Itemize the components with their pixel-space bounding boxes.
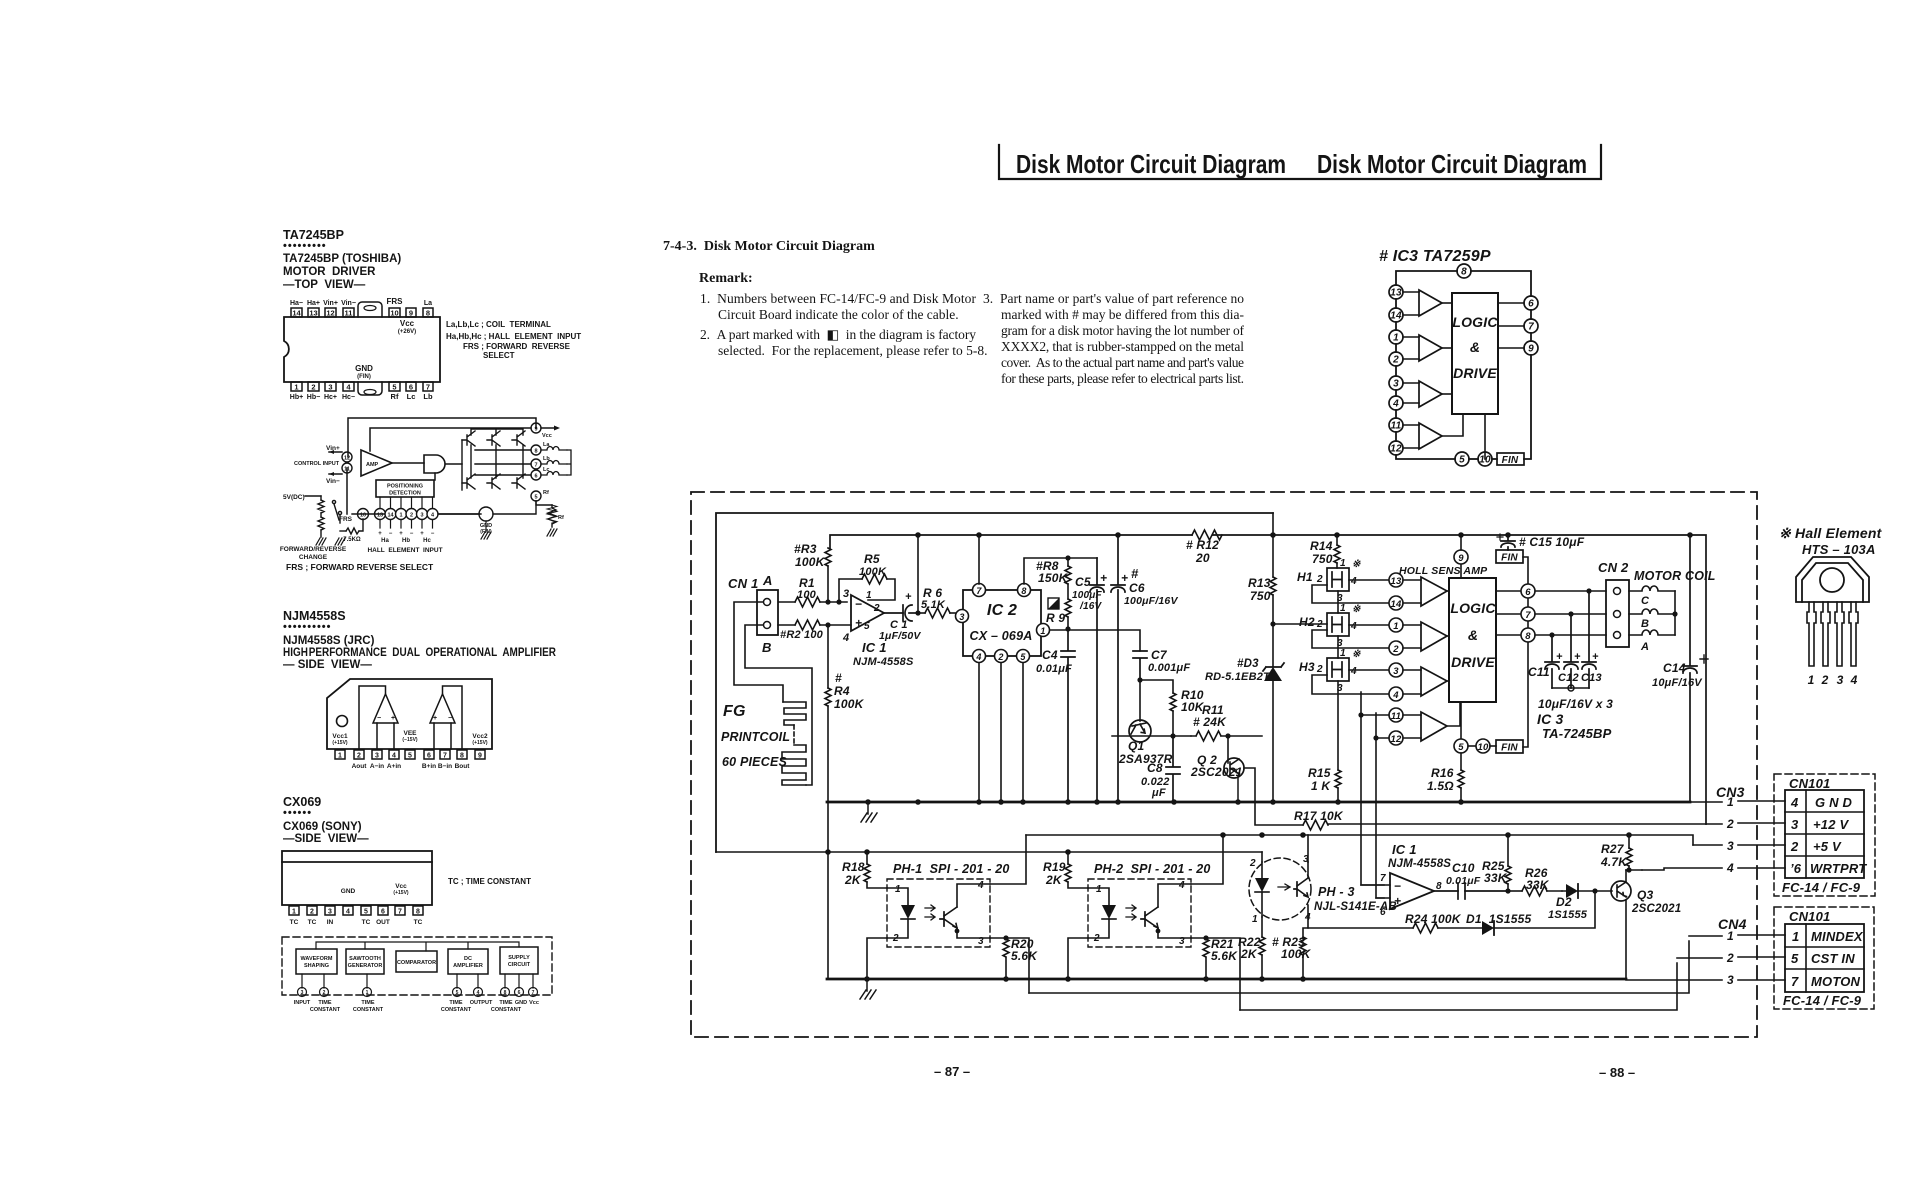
PH-2 phototransistor [1141,884,1191,938]
svg-text:9: 9 [1458,553,1464,564]
svg-text:11: 11 [344,467,350,473]
IC2 pin1 wire [1050,630,1140,651]
svg-text:※: ※ [1352,649,1361,660]
node wire x=1273 down from board edge [1272,513,1274,577]
svg-text:1S1555: 1S1555 [1548,909,1588,921]
svg-text:C7: C7 [1151,648,1168,662]
resistor R9 zigzag [1065,584,1071,632]
svg-text:13: 13 [1390,288,1402,299]
svg-text:100K: 100K [795,555,826,569]
svg-text:+: + [855,616,862,630]
svg-text:IN: IN [327,919,334,926]
svg-text:100: 100 [797,589,817,601]
FRS switch network [283,494,363,537]
svg-text:7: 7 [1525,610,1531,621]
IC1 name label [853,640,914,668]
resistor R10 10K [1140,680,1205,736]
svg-text:La: La [424,300,432,307]
capacitor C5 [1072,558,1107,802]
ground symbols under switch [316,538,345,545]
CX069 block diagram dashed box [282,937,552,995]
svg-text:R27: R27 [1601,842,1625,856]
svg-text:−: − [389,531,393,537]
hall element leg 2 [1821,602,1830,666]
svg-text:33K: 33K [1526,878,1550,892]
svg-text:13: 13 [309,309,317,318]
svg-text:2SC2021: 2SC2021 [1631,903,1681,915]
svg-text:5: 5 [534,495,537,501]
svg-text:COMPARATOR: COMPARATOR [397,960,436,966]
output bridge transistors [462,429,531,490]
capacitor C12 [1558,611,1581,688]
svg-text:Hb: Hb [402,538,410,544]
IC3 pin 13 [1389,573,1403,587]
svg-text:Lc: Lc [407,392,416,401]
svg-text:13: 13 [1391,576,1402,587]
svg-text:GENERATOR: GENERATOR [348,963,383,969]
svg-text:SHAPING: SHAPING [304,963,329,969]
svg-text:(−15V): (−15V) [402,737,417,743]
svg-text:4: 4 [1350,621,1357,632]
IC1b input wires [1361,885,1390,898]
HOLL SENS AMP label [1399,565,1488,577]
svg-text:—SIDE VIEW—: —SIDE VIEW— [283,833,369,845]
svg-text:4: 4 [975,652,981,662]
NJM4558S index hole [337,716,348,727]
bottom pin row circles 10,13,14,1,2,3,4 [339,509,481,524]
svg-text:2: 2 [1726,951,1734,965]
svg-text:IC 1: IC 1 [1392,842,1417,857]
pin 7 right [1524,319,1538,333]
IC2 pin 5 [1017,650,1030,803]
supply circuit box [500,947,538,974]
pin 11 [1389,418,1419,432]
pin 9 right [1524,341,1538,355]
svg-text:POSITIONING: POSITIONING [387,484,423,490]
svg-text:A−in: A−in [370,763,384,770]
Q1 emitter wire to R10/R11 [1112,733,1191,738]
svg-text:12: 12 [326,309,334,318]
svg-text:Bout: Bout [455,763,471,770]
svg-text:1: 1 [1792,929,1799,944]
svg-text:11: 11 [1391,421,1402,432]
pin 13 [1389,285,1419,299]
capacitor C6 [1111,535,1178,802]
wires pos-det to pins [380,497,433,528]
svg-text:5: 5 [456,990,459,996]
svg-text:R13: R13 [1248,576,1271,590]
svg-text:Vcc: Vcc [400,319,415,328]
PH-1 phototransistor [940,884,990,938]
svg-text:Rf: Rf [391,392,399,401]
svg-text:750: 750 [1250,589,1271,603]
IC2 pin 1 [1037,624,1050,637]
svg-text:100K: 100K [859,566,887,578]
svg-text:’6: ’6 [1790,861,1802,876]
svg-text:FRS ; FORWARD REVERSE: FRS ; FORWARD REVERSE [463,342,571,351]
pin 9 circle Vcc [531,423,552,439]
transistor Q1 2SA937R [1118,680,1173,766]
NJM4558S package outline [327,679,492,749]
svg-text:Q1: Q1 [1128,739,1145,753]
PH-3 phototransistor [1294,862,1308,917]
op-amp IC1 [842,588,884,644]
PH-1 pin2 wire down [867,938,887,979]
svg-text:LOGIC: LOGIC [1450,600,1496,616]
R17 wire to CN3-2 [1244,768,1706,830]
motor coil common [1672,591,1677,635]
motor coil A [1629,630,1675,653]
svg-text:Vcc: Vcc [395,883,407,890]
pin 4 [1389,396,1419,410]
svg-text:9: 9 [534,427,537,433]
resistor R19 2K [1043,852,1088,888]
CN4 wire 3 [1626,973,1785,987]
svg-text:150K: 150K [1038,571,1069,585]
svg-text:HOLL SENS AMP: HOLL SENS AMP [1399,565,1488,577]
pin 6 right [1524,296,1538,310]
svg-text:Remark:: Remark: [699,271,753,286]
positioning detection box [376,480,434,497]
svg-text:R5: R5 [864,552,880,566]
svg-text:•••••••••: ••••••••• [283,240,327,252]
svg-text:1: 1 [1393,333,1399,344]
svg-text:(+15V): (+15V) [472,740,487,746]
page number 88 [1599,1065,1635,1080]
svg-text:DC: DC [464,956,472,962]
svg-text:TIME: TIME [449,1000,462,1006]
svg-text:RD-5.1EB2T: RD-5.1EB2T [1205,671,1271,683]
svg-text:TA7245BP (TOSHIBA): TA7245BP (TOSHIBA) [283,253,401,265]
svg-text:10: 10 [1478,742,1489,753]
svg-text:2: 2 [310,909,314,916]
svg-text:33K: 33K [1484,871,1508,885]
svg-text:+: + [1100,571,1107,585]
resistor R6 5.1K [918,586,955,618]
svg-text:GND: GND [341,888,356,895]
CN3 wire 1 [1690,795,1785,809]
svg-text:H2: H2 [1299,615,1315,629]
svg-text:R 9: R 9 [1046,611,1065,625]
svg-text:5: 5 [1458,742,1464,753]
svg-text:D2: D2 [1556,895,1572,909]
svg-text:/16V: /16V [1079,601,1103,612]
hall sensor H3 [1299,648,1361,694]
IC3 pin 6 right [1496,584,1606,598]
hall amp buffer 2 [1421,622,1449,651]
IC1b output wire + C10 [1434,861,1508,899]
svg-text:5: 5 [1020,652,1026,662]
svg-text:11: 11 [345,309,353,318]
pin 12 circle [342,452,352,462]
TA7245BP block diagram wires [329,418,560,514]
svg-text:AMPLIFIER: AMPLIFIER [453,963,483,969]
svg-text:3: 3 [328,383,332,392]
svg-text:2: 2 [1249,858,1256,869]
svg-text:Vin−: Vin− [341,300,356,307]
svg-text:7: 7 [398,909,402,916]
IC2 pin 3 [956,610,969,623]
FIN box bottom [1490,740,1523,754]
svg-text:100K: 100K [1281,947,1312,961]
hall element input labels [367,531,442,554]
TA7245BP bottom pins 1-7 [290,364,433,401]
svg-text:C13: C13 [1581,672,1602,684]
svg-text:6: 6 [1528,299,1534,310]
svg-text:IC 2: IC 2 [987,602,1017,619]
svg-text:6: 6 [534,474,537,480]
svg-text:+: + [1394,894,1401,908]
svg-text:3: 3 [1727,973,1734,987]
dc amplifier box [448,949,488,974]
svg-text:4: 4 [977,880,984,891]
H2 wires [1312,625,1389,658]
svg-text:1: 1 [1340,558,1346,569]
CX069 supply labels [341,883,409,896]
svg-text:Hb+: Hb+ [290,394,303,401]
capacitor C8 [1141,736,1180,802]
pin 7 circle + coil Lb [531,456,567,469]
svg-text:4: 4 [477,990,480,996]
svg-text:1μF/50V: 1μF/50V [879,630,921,642]
svg-text:5.6K: 5.6K [1211,949,1238,963]
svg-text:G N D: G N D [1815,795,1853,810]
svg-text:Lc: Lc [543,467,549,473]
svg-text:+12 V: +12 V [1813,817,1849,832]
IC3 pin 14 [1389,596,1403,610]
svg-text:MINDEX: MINDEX [1811,929,1864,944]
svg-text:B: B [1641,618,1649,630]
svg-text:9: 9 [1528,344,1534,355]
svg-text:&: & [1470,339,1480,355]
coil common wire [567,450,571,475]
svg-text:Disk Motor Circuit Diagram: Disk Motor Circuit Diagram [1317,149,1587,179]
svg-text:8: 8 [460,753,464,760]
op-amp IC1 second [1380,842,1451,918]
svg-text:CN101: CN101 [1789,909,1830,924]
svg-text:+: + [1556,651,1563,663]
svg-text:3: 3 [843,588,849,600]
svg-text:2K: 2K [1045,873,1063,887]
PH-3 LED [1255,862,1290,917]
svg-text:gram for a disk motor having t: gram for a disk motor having the lot num… [1001,323,1245,338]
svg-text:DRIVE: DRIVE [1453,365,1497,381]
svg-text:Ha−: Ha− [290,300,303,307]
svg-text:B: B [762,640,772,655]
svg-text:5: 5 [1791,951,1799,966]
comparator box [396,951,437,972]
svg-text:14: 14 [1391,599,1402,610]
svg-text:INPUT: INPUT [294,1000,311,1006]
svg-text:2: 2 [1392,355,1399,366]
diode D1 1S1555 [1466,891,1595,935]
svg-text:H1: H1 [1297,570,1313,584]
svg-text:3: 3 [328,909,332,916]
svg-text:cover. As to the actual part: cover. As to the actual part name and pa… [1001,355,1244,370]
svg-text:60 PIECES: 60 PIECES [722,755,787,769]
page number 87 [934,1064,970,1079]
svg-text:VEE: VEE [403,730,417,737]
ground below GND FIN [481,521,491,539]
svg-text:R18: R18 [842,860,865,874]
svg-text:Disk Motor Circuit Diagram: Disk Motor Circuit Diagram [1016,149,1286,179]
svg-text:selected. For the replacement: selected. For the replacement, please re… [718,343,988,358]
svg-text:TIME: TIME [318,1000,331,1006]
svg-text:IC 1: IC 1 [862,640,887,655]
svg-text:FORWARD/REVERSE: FORWARD/REVERSE [280,546,347,553]
capacitor C15 [1497,534,1585,550]
IC3 pin 8 right [1496,628,1606,642]
svg-text:Hb−: Hb− [307,394,320,401]
svg-text:2SA937R: 2SA937R [1118,752,1173,766]
svg-text:FG: FG [723,703,746,720]
PH-3 top wires [1262,835,1308,862]
svg-text:CIRCUIT: CIRCUIT [508,962,531,968]
pin 3 [1389,376,1419,390]
svg-text:1: 1 [338,753,342,760]
resistor R16 1.5ohm [1427,753,1464,802]
svg-text:TIME: TIME [499,1000,512,1006]
PH-1 pin4 wire up [990,835,1026,884]
svg-text:4: 4 [1178,880,1185,891]
capacitor C1 [879,535,921,642]
svg-text:– 87 –: – 87 – [934,1064,970,1079]
svg-text:1: 1 [292,909,296,916]
svg-text:Hc+: Hc+ [324,394,337,401]
svg-text:CHANGE: CHANGE [299,554,328,561]
inner board outline left [716,513,1273,852]
svg-text:A: A [1640,641,1649,653]
svg-text:9: 9 [478,753,482,760]
svg-text:14: 14 [292,309,301,318]
IC3 pin 2 [1389,641,1403,655]
svg-text:4: 4 [1726,861,1734,875]
svg-text:10: 10 [360,513,366,519]
PH-1 LED [887,888,935,938]
svg-text:C12: C12 [1558,672,1579,684]
svg-text:PH - 3: PH - 3 [1318,885,1355,899]
svg-text:# C15 10μF: # C15 10μF [1519,535,1585,549]
svg-text:CONSTANT: CONSTANT [310,1007,341,1013]
pin 14 [1389,308,1419,322]
IC3 bottom pin 5 [1454,702,1468,753]
top supply bus y=535 [830,532,1706,824]
svg-text:SUPPLY: SUPPLY [508,955,530,961]
svg-text:1: 1 [1096,884,1102,895]
svg-text:Ha,Hb,Hc ; HALL ELEMENT INPU: Ha,Hb,Hc ; HALL ELEMENT INPUT [446,332,581,341]
svg-text:+5 V: +5 V [1813,839,1842,854]
svg-text:7-4-3. Disk Motor Circuit Dia: 7-4-3. Disk Motor Circuit Diagram [663,239,875,254]
motor coil C [1629,586,1675,607]
svg-text:Rf: Rf [558,515,564,521]
svg-text:FIN: FIN [1502,455,1519,466]
svg-text:7: 7 [976,586,982,596]
svg-text:5.6K: 5.6K [1011,949,1038,963]
svg-text:C14: C14 [1663,661,1686,675]
wire R13 node to H2 [1273,624,1327,666]
svg-text:R 6: R 6 [923,586,942,600]
pin 8 top [1457,264,1471,278]
svg-text:8: 8 [1461,267,1467,278]
svg-text:C6: C6 [1129,581,1145,595]
svg-text:A: A [762,573,773,588]
svg-text:11: 11 [1391,711,1401,722]
svg-text:R15: R15 [1308,766,1331,780]
svg-text:DETECTION: DETECTION [389,491,421,497]
svg-text:TA-7245BP: TA-7245BP [1542,726,1612,741]
wire CN1-A to FG [734,602,783,702]
zener diode D3 RD-5.1EB2T [1205,658,1284,802]
svg-text:CONSTANT: CONSTANT [353,1007,384,1013]
svg-text:# R12: # R12 [1186,538,1219,552]
TA7245BP package top view [284,302,440,395]
resistor Rf [536,501,564,527]
NJM4558S header text [283,609,557,671]
svg-text:100μF/16V: 100μF/16V [1124,595,1178,607]
svg-text:3. Part name or part's value: 3. Part name or part's value of part ref… [983,291,1244,306]
IC3 pin 7 right [1496,607,1606,621]
svg-text:WRTPRT: WRTPRT [1810,861,1867,876]
resistor R12 in bus [1186,530,1222,565]
svg-text:6: 6 [409,383,413,392]
svg-text:100μF: 100μF [1072,590,1103,601]
svg-text:Lb: Lb [543,456,550,462]
photo interrupter PH-3 [1249,854,1397,925]
svg-text:– 88 –: – 88 – [1599,1065,1635,1080]
svg-text:#: # [835,671,842,685]
AND gate [424,455,445,473]
IC2 pin 2 [995,650,1008,803]
resistor R4 100K [825,622,865,802]
svg-text:HIGH PERFORMANCE DUAL OPERAT: HIGH PERFORMANCE DUAL OPERATIONAL AMPLIF… [283,647,557,659]
svg-text:μF: μF [1151,787,1166,799]
svg-text:NJM4558S (JRC): NJM4558S (JRC) [283,635,375,647]
hall sensor H2 [1299,603,1361,649]
svg-text:5: 5 [392,383,396,392]
svg-text:3: 3 [1727,839,1734,853]
svg-text:5: 5 [864,621,870,632]
svg-text:−: − [1394,879,1401,893]
GND (FIN) circle [438,501,536,535]
control input labels [294,445,340,485]
svg-text:Vcc: Vcc [542,433,552,439]
CX069 package [282,851,432,905]
CX069 header text [283,795,369,845]
svg-text:1: 1 [1808,673,1815,687]
svg-text:2: 2 [1316,664,1323,675]
CN4 CN101 table [1774,907,1874,1009]
svg-text:Vin−: Vin− [326,478,340,485]
svg-text:12: 12 [1390,444,1402,455]
svg-text:8: 8 [534,449,537,455]
svg-text:4.7K: 4.7K [1600,855,1628,869]
resistor R11 24K [1191,703,1262,741]
svg-text:C8: C8 [1147,761,1163,775]
svg-text:3: 3 [1393,666,1399,677]
svg-text:7: 7 [1528,322,1534,333]
PH-2 LED [1088,888,1136,938]
NJM4558S supply labels [332,730,488,746]
svg-text:2SC2021: 2SC2021 [1190,765,1243,779]
op-amp A triangle [359,686,398,749]
svg-text:H3: H3 [1299,660,1315,674]
svg-text:XXXX2, that is rubber-stampped: XXXX2, that is rubber-stampped on the me… [1001,339,1244,354]
svg-text:8: 8 [416,909,420,916]
svg-text:+: + [399,531,403,537]
svg-text:7: 7 [534,463,537,469]
R24 100K + D1 wire [1308,912,1482,933]
svg-text:C11: C11 [1528,665,1550,679]
